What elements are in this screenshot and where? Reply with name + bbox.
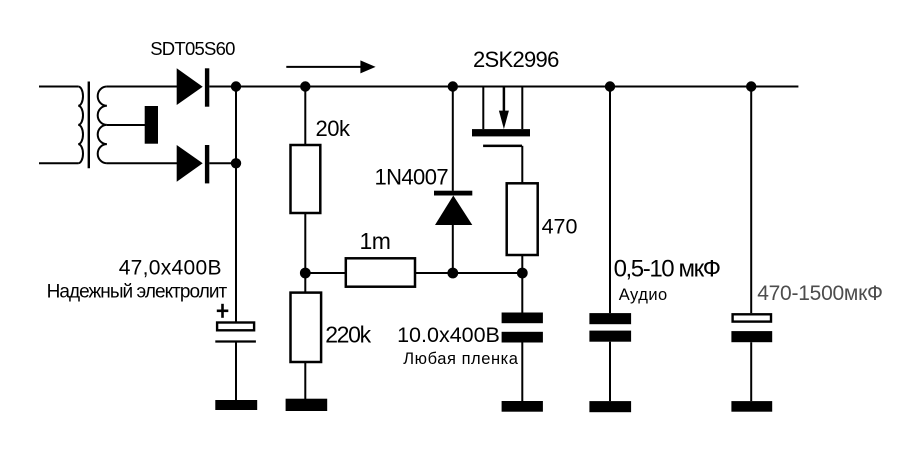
wire center tap lead bbox=[107, 124, 146, 126]
B+ rail bbox=[209, 86, 798, 88]
diode D3 1N4007 bbox=[434, 191, 472, 225]
wire D2 cathode to rectifier node bbox=[209, 162, 236, 164]
transformer T1 secondary winding bbox=[98, 87, 107, 164]
svg-text:1N4007: 1N4007 bbox=[375, 165, 449, 190]
wire rail to D3 cathode bbox=[452, 87, 454, 191]
resistor R4 470 bbox=[507, 183, 538, 255]
svg-text:SDT05S60: SDT05S60 bbox=[150, 38, 235, 59]
wire primary top lead bbox=[39, 86, 78, 88]
wire D3 anode to node bbox=[452, 225, 454, 273]
wire R4 to node bbox=[521, 255, 523, 273]
wire secondary top lead bbox=[107, 86, 178, 88]
svg-text:Надежный электролит: Надежный электролит bbox=[47, 281, 228, 302]
wire R2 to ground bbox=[304, 362, 306, 399]
wire R1 to divider node bbox=[304, 213, 306, 273]
wire divider node to R3 bbox=[305, 272, 346, 274]
svg-text:0,5-10 мкФ: 0,5-10 мкФ bbox=[614, 256, 720, 283]
svg-text:Аудио: Аудио bbox=[619, 286, 668, 304]
transformer T1 primary winding bbox=[78, 87, 83, 164]
svg-text:470: 470 bbox=[542, 215, 578, 239]
transformer T1 core bbox=[88, 82, 90, 169]
resistor R1 20k bbox=[291, 145, 321, 213]
resistor R2 220k bbox=[291, 293, 322, 362]
node dot R1 top bbox=[300, 81, 310, 91]
wire node to C2 bbox=[521, 273, 523, 313]
node dot D3 anode bbox=[447, 268, 458, 279]
node dot rectifier bottom bbox=[231, 158, 241, 168]
label plus polarity bbox=[217, 304, 229, 318]
capacitor C3 plates bbox=[589, 313, 631, 342]
wire C4 to ground bbox=[750, 342, 752, 401]
wire rail to R1 bbox=[304, 87, 306, 146]
svg-text:220k: 220k bbox=[325, 322, 371, 348]
MOSFET Q1 2SK2996 bbox=[472, 87, 530, 184]
current direction arrow bbox=[286, 60, 375, 73]
wire rectifier to C1 bbox=[235, 163, 237, 321]
ground bar R2 bbox=[286, 399, 328, 411]
node dot divider bbox=[300, 268, 311, 279]
capacitor C4 bottom plate bbox=[731, 331, 772, 342]
capacitor C1 bottom plate bbox=[215, 340, 256, 342]
wire C2 to ground bbox=[521, 343, 523, 402]
svg-text:Любая пленка: Любая пленка bbox=[403, 350, 518, 368]
diode D1 SDT05S60 top bbox=[177, 68, 210, 106]
node dot rail D3 bbox=[448, 81, 458, 91]
svg-text:47,0x400В: 47,0x400В bbox=[119, 256, 222, 279]
node dot rectifier top bbox=[231, 81, 241, 91]
node dot source/C2 bbox=[517, 268, 528, 279]
svg-text:2SK2996: 2SK2996 bbox=[473, 47, 559, 72]
wire secondary bottom lead bbox=[107, 162, 178, 164]
wire rail to C4 bbox=[750, 87, 752, 314]
diode D2 SDT05S60 bottom bbox=[177, 145, 210, 183]
capacitor C4 top plate (open) bbox=[733, 314, 771, 321]
wire C3 to ground bbox=[609, 342, 611, 401]
wire primary bottom lead bbox=[39, 162, 78, 164]
capacitor C2 10.0x400V plates bbox=[502, 313, 543, 343]
capacitor C1 top plate (open) bbox=[217, 323, 254, 331]
node dot C4 bbox=[746, 81, 756, 91]
wire R3 to D3 node bbox=[415, 272, 453, 274]
ground bar C2 bbox=[502, 401, 543, 412]
svg-text:470-1500мкФ: 470-1500мкФ bbox=[757, 282, 883, 305]
ground bar C1 bbox=[215, 400, 257, 410]
wire rail to C3 bbox=[609, 87, 611, 314]
ground bar C3 bbox=[589, 401, 631, 412]
svg-text:20k: 20k bbox=[316, 116, 351, 141]
svg-text:10.0x400В: 10.0x400В bbox=[397, 323, 500, 347]
wire node row D3 to source node bbox=[453, 272, 523, 274]
node dot C3 bbox=[605, 81, 615, 91]
center tap terminal bar bbox=[145, 106, 158, 144]
wire divider node to R2 bbox=[304, 273, 306, 293]
wire C1 to ground bbox=[235, 342, 237, 401]
ground bar C4 bbox=[731, 401, 772, 412]
svg-text:1m: 1m bbox=[360, 228, 391, 254]
resistor R3 1m bbox=[346, 258, 415, 286]
wire rectifier outputs join bbox=[235, 87, 237, 164]
